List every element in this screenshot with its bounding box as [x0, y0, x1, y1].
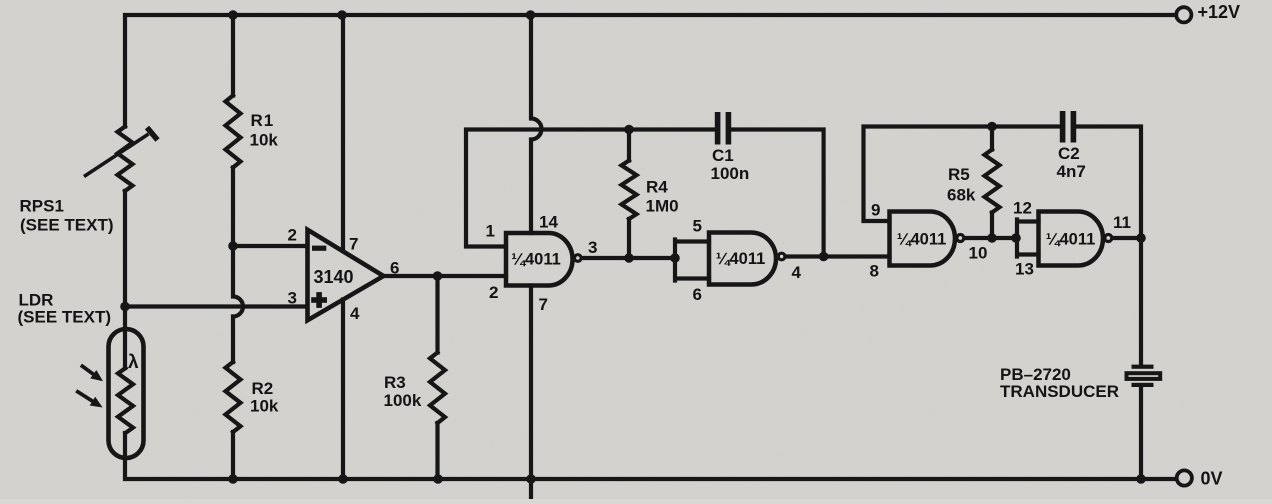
pin 12 label [1013, 199, 1032, 218]
svg-text:R4: R4 [646, 178, 668, 197]
wire U2b output to U2c pin 8 [786, 254, 889, 258]
U2b input tie bar pins 5-6 [675, 240, 709, 281]
pin 10 label [969, 244, 988, 263]
label U2c quarter-4011 [897, 231, 947, 249]
capacitor C2 [1060, 111, 1076, 143]
wire pin 7 to 0V rail [529, 286, 533, 500]
pin 9 label [871, 201, 880, 220]
svg-text:7: 7 [539, 295, 548, 314]
svg-text:1: 1 [486, 222, 495, 241]
transducer PB-2720 [1127, 365, 1161, 387]
svg-text:R5: R5 [948, 165, 970, 184]
preset resistor RPS1 [84, 127, 158, 192]
junction U2d input tie [1011, 233, 1021, 243]
svg-text:C2: C2 [1058, 144, 1080, 163]
resistor R3 [430, 276, 445, 479]
wire C2 to U2d output node [1076, 127, 1141, 239]
NAND gate U2b quarter-4011 [709, 233, 776, 285]
pin 2 label [288, 226, 297, 245]
svg-text:4n7: 4n7 [1057, 162, 1086, 181]
label R1 value 10k [250, 131, 279, 150]
label LDR [19, 291, 54, 310]
pin 14 label [539, 213, 558, 232]
node junction RPS1/LDR to pin 3 [120, 302, 130, 312]
pin 4 label [350, 304, 360, 323]
svg-text:0V: 0V [1201, 469, 1223, 489]
wire 0V rail [125, 433, 1176, 479]
label R5 value 68k [947, 186, 976, 205]
U2d output bubble [1105, 235, 1112, 242]
label R2 value 10k [250, 397, 279, 416]
svg-text:3: 3 [288, 289, 297, 308]
junction R5 bottom / U2c output [987, 233, 997, 243]
label R1 [251, 111, 275, 130]
svg-text:11: 11 [1113, 213, 1131, 232]
junction transducer / 0V rail [1136, 474, 1146, 484]
wire pin 1 feedback to C1/R4 node [466, 130, 715, 247]
pin 3 label [288, 289, 297, 308]
svg-text:¼4011: ¼4011 [716, 250, 766, 268]
junction +12V rail / op-amp supply [337, 10, 347, 20]
junction op-amp output / R3 [433, 271, 443, 281]
junction +12V rail / R1 [228, 10, 238, 20]
junction R4 bottom / signal [624, 253, 634, 263]
wire junction to op-amp pin 2 [233, 244, 307, 248]
label C1 [712, 146, 734, 165]
resistor R1 [226, 15, 241, 246]
svg-text:6: 6 [693, 285, 702, 304]
U2b output bubble [778, 253, 785, 260]
svg-text:4: 4 [792, 263, 802, 282]
svg-text:13: 13 [1015, 260, 1034, 279]
label R3 value 100k [384, 391, 422, 410]
pin 3 label [588, 238, 597, 257]
svg-text:10k: 10k [250, 131, 279, 150]
label RPS1 [20, 197, 64, 216]
svg-text:¼4011: ¼4011 [897, 231, 947, 249]
label R5 [948, 165, 970, 184]
junction op-amp supply / 0V rail [338, 474, 348, 484]
LDR light arrow 1 [81, 365, 103, 381]
LDR lambda symbol [128, 352, 139, 373]
svg-text:7: 7 [349, 235, 358, 254]
wire node A to op-amp pin 3 [125, 304, 307, 308]
wire U2c output to U2d input [965, 236, 1017, 240]
svg-text:¼4011: ¼4011 [1046, 231, 1096, 249]
pin 13 label [1015, 260, 1034, 279]
svg-text:2: 2 [288, 226, 297, 245]
op-amp U1 3140 body [308, 230, 384, 321]
pin 11 label [1113, 213, 1131, 232]
junction R1/R2 to pin 2 [228, 241, 238, 251]
label 0V [1201, 469, 1223, 489]
svg-text:68k: 68k [947, 186, 976, 205]
label 3140 [314, 267, 354, 287]
NAND gate U2d quarter-4011 [1039, 212, 1103, 266]
junction feedback / R4 top [624, 125, 634, 135]
op-amp non-inverting input symbol [311, 292, 327, 308]
pin 2 label gate U2a [489, 283, 498, 302]
label R2 [252, 379, 274, 398]
op-amp power wire pin 7 to +12V [341, 15, 345, 251]
svg-text:R1: R1 [251, 111, 275, 130]
junction pin 7 / 0V rail [526, 474, 536, 484]
svg-text:C1: C1 [712, 146, 734, 165]
svg-text:12: 12 [1013, 199, 1032, 218]
svg-text:+12V: +12V [1198, 2, 1241, 22]
pin 7 label gate U2a [539, 295, 548, 314]
terminal 0V [1177, 470, 1192, 485]
junction R3 / 0V rail [433, 474, 443, 484]
terminal +12V [1176, 7, 1191, 22]
label R3 [384, 373, 406, 392]
label PB-2720 [1000, 365, 1071, 384]
junction C1 branch / U2b output [819, 252, 829, 262]
svg-text:1M0: 1M0 [646, 197, 679, 216]
U2a output bubble [575, 255, 582, 262]
pin 5 label [693, 217, 702, 236]
label U2a quarter-4011 [511, 251, 561, 269]
label C2 value 4n7 [1057, 162, 1086, 181]
svg-text:100n: 100n [711, 164, 750, 183]
svg-text:3140: 3140 [314, 267, 354, 287]
wire U2d output [1113, 236, 1141, 240]
capacitor C1 [715, 112, 731, 145]
svg-text:R3: R3 [384, 373, 406, 392]
wire RPS1 to LDR [123, 191, 127, 368]
wire op-amp output to gate U2a pin 2 [382, 274, 506, 278]
svg-text:10k: 10k [250, 397, 279, 416]
pin 6 label [693, 285, 702, 304]
wire C1 to gate U2b output node [731, 130, 823, 257]
junction U2b input tie [670, 253, 680, 263]
wire U2a output to U2b input [582, 256, 675, 260]
pin 6 label [390, 259, 399, 278]
resistor R4 [622, 130, 637, 259]
svg-text:RPS1: RPS1 [20, 197, 64, 216]
wire transducer to 0V rail [1139, 387, 1143, 479]
LDR envelope [109, 329, 144, 458]
pin 4 label gate U2b [792, 263, 802, 282]
label R4 [646, 178, 668, 197]
wire pin 9 feedback [864, 127, 1060, 222]
svg-text:2: 2 [489, 283, 498, 302]
op-amp power wire pin 4 to 0V [341, 300, 345, 480]
pin 8 label [870, 262, 879, 281]
label TRANSDUCER [1000, 382, 1119, 401]
svg-text:(SEE TEXT): (SEE TEXT) [18, 308, 112, 327]
svg-text:14: 14 [539, 213, 558, 232]
resistor R5 [985, 127, 1000, 239]
LDR light arrow 2 [76, 391, 102, 408]
svg-text:100k: 100k [384, 391, 422, 410]
junction U2d output node [1136, 233, 1146, 243]
wire +12V supply rail [125, 15, 1176, 127]
svg-text:8: 8 [870, 262, 879, 281]
svg-text:5: 5 [693, 217, 702, 236]
wire output node to transducer [1139, 238, 1143, 365]
LDR photoresistor element [118, 368, 133, 433]
svg-text:TRANSDUCER: TRANSDUCER [1000, 382, 1119, 401]
NAND gate U2c quarter-4011 [890, 212, 955, 266]
label R4 value 1M0 [646, 197, 679, 216]
svg-text:(SEE TEXT): (SEE TEXT) [20, 216, 114, 235]
svg-text:9: 9 [871, 201, 880, 220]
svg-text:4: 4 [350, 304, 360, 323]
op-amp inverting input symbol [312, 246, 326, 251]
svg-text:3: 3 [588, 238, 597, 257]
junction +12V rail / pin 14 [526, 10, 536, 20]
U2c output bubble [957, 235, 964, 242]
junction R2 / 0V rail [228, 474, 238, 484]
label LDR (SEE TEXT) [18, 308, 112, 327]
label C2 [1058, 144, 1080, 163]
wire pin 14 to +12V rail with hop over feedback wire [531, 15, 542, 233]
label U2b quarter-4011 [716, 250, 766, 268]
svg-text:¼4011: ¼4011 [511, 251, 561, 269]
svg-text:10: 10 [969, 244, 988, 263]
label +12V [1198, 2, 1241, 22]
svg-text:R2: R2 [252, 379, 274, 398]
label C1 value 100n [711, 164, 750, 183]
U2d input tie bar pins 12-13 [1017, 220, 1039, 257]
NAND gate U2a quarter-4011 [506, 233, 573, 286]
pin 7 label [349, 235, 358, 254]
junction feedback / R5 top [987, 122, 997, 132]
resistor R2 with hop over pin-3 wire [226, 246, 244, 479]
pin 1 label [486, 222, 495, 241]
svg-text:λ: λ [128, 352, 139, 373]
label RPS1 (SEE TEXT) [20, 216, 114, 235]
label U2d quarter-4011 [1046, 231, 1096, 249]
